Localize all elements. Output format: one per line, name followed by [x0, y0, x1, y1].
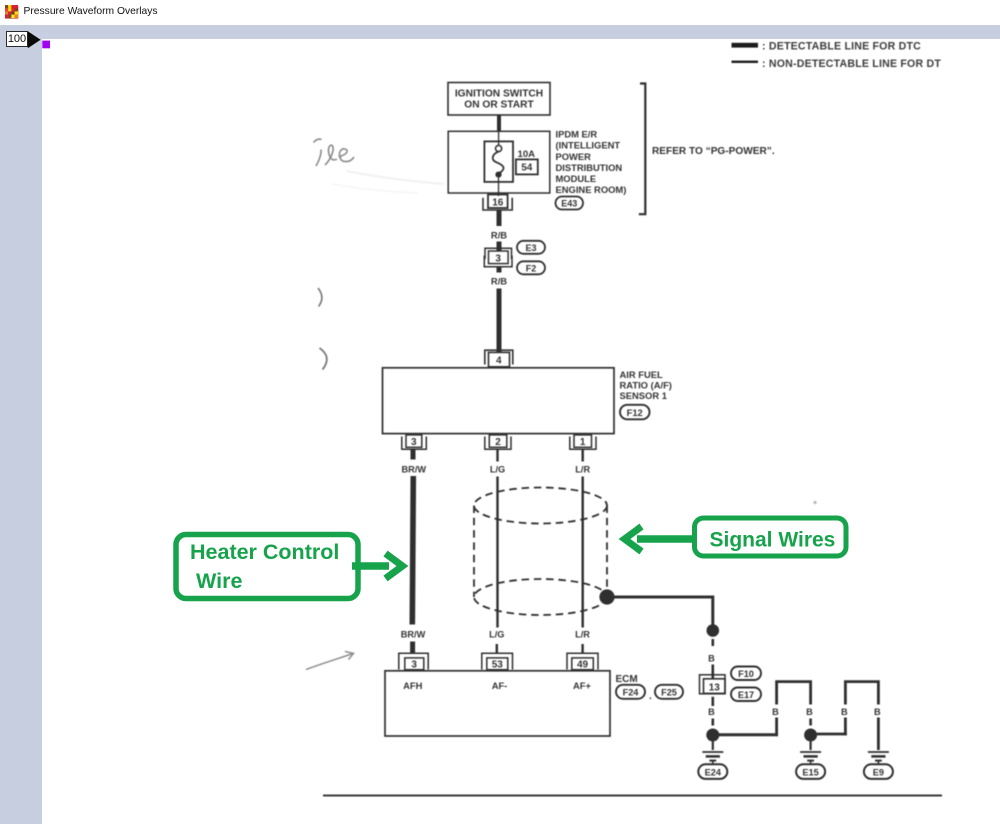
sensor pin 1 — [570, 435, 596, 449]
wire into fuse — [498, 132, 500, 146]
connector F2 — [517, 261, 545, 274]
A/F sensor box — [383, 368, 615, 434]
shield cylinder bottom ellipse — [474, 579, 607, 615]
dashed wire to node D — [809, 719, 812, 730]
fuse element — [493, 145, 504, 177]
sensor pin 3 — [402, 435, 427, 449]
legend detectable line symbol — [732, 40, 922, 52]
callout Signal Wires — [695, 518, 847, 556]
IPDM label block — [556, 129, 627, 196]
pin 4 connector — [485, 350, 513, 367]
svg-text:Signal Wires: Signal Wires — [710, 529, 836, 552]
connector E43 — [556, 197, 584, 210]
signal wire L/G — [496, 477, 498, 628]
wire below 13 — [711, 697, 714, 706]
svg-text:Heater Control: Heater Control — [190, 540, 339, 564]
callout Heater Control Wire — [176, 535, 358, 599]
wire stub L/R — [582, 450, 584, 462]
fuse number 54 box — [516, 159, 538, 174]
wire stub into ECM pin 53 — [496, 644, 498, 654]
shield cylinder top ellipse — [474, 488, 607, 524]
connector 13 (F10/E17) — [700, 675, 726, 694]
sensor pin 2 — [485, 435, 511, 449]
scan smudge — [347, 171, 444, 184]
wire stub into ECM pin 49 — [581, 644, 583, 654]
sensor label — [620, 369, 672, 401]
wire D to ground — [809, 742, 811, 751]
svg-text:Wire: Wire — [196, 569, 242, 593]
pi-link 2 left corner — [844, 718, 847, 736]
shield cylinder right side — [606, 506, 608, 598]
junction node C — [706, 729, 719, 742]
pi-link 1 left leg upper + top + right leg — [777, 682, 811, 705]
ECM pin 49 — [567, 653, 598, 670]
junction node B — [707, 624, 720, 637]
connector E9 — [864, 764, 893, 779]
page rule line — [323, 795, 942, 797]
connector E17 — [731, 688, 761, 702]
wire stub into ECM pin 3 — [410, 642, 415, 655]
handwriting pencil arrow — [306, 652, 354, 670]
wire below connector 3 — [497, 267, 502, 273]
wire D to pi2 — [817, 733, 847, 736]
arrow to signal wires — [625, 527, 695, 552]
dashed wire B — [711, 639, 714, 651]
wire R/B long — [497, 289, 502, 353]
signal wire L/R — [582, 477, 584, 628]
connector 3 (E3/F2) — [484, 248, 512, 267]
ground E24 — [702, 752, 723, 764]
wire 16 down — [497, 211, 502, 227]
connector F24 — [616, 685, 645, 699]
wire to connector 3 — [497, 242, 502, 252]
pin 16 connector — [483, 195, 512, 211]
shield cylinder left side — [473, 506, 475, 598]
wire ignition to IPDM — [497, 115, 501, 132]
ignition switch box — [448, 83, 550, 116]
wire stub BR/W — [411, 450, 416, 460]
dashed wire to node C — [711, 719, 714, 730]
junction node D — [804, 729, 817, 742]
ECM pin 3 — [399, 653, 428, 670]
window title icon — [0, 0, 26, 26]
play marker and overlay chip — [0, 0, 60, 60]
pi-link 2 upper — [845, 682, 878, 705]
connector F10 — [731, 667, 761, 681]
handwriting paren 2 — [320, 348, 327, 370]
ground E9 — [868, 752, 889, 764]
handwriting ite — [314, 139, 355, 166]
heater control wire BR/W thick — [412, 476, 413, 625]
connector E24 — [698, 764, 727, 779]
wire to ground E9 — [877, 718, 880, 751]
connector F25 — [655, 685, 683, 699]
wire C to pi1 — [719, 733, 778, 736]
wire shield to right — [613, 596, 713, 599]
legend non-detectable line symbol — [732, 58, 942, 70]
junction node A (shield drain) — [599, 589, 614, 604]
connector E15 — [796, 764, 825, 779]
fuse 10A box — [484, 141, 513, 182]
ECM pin 53 — [482, 653, 513, 670]
arrow to heater wire — [352, 554, 403, 579]
wire C to ground — [712, 742, 714, 751]
handwriting paren 1 — [318, 288, 322, 307]
wire fuse to pin 16 — [498, 178, 500, 196]
ground E15 — [800, 752, 821, 764]
IPDM E/R box U1 — [448, 131, 550, 193]
connector F12 — [620, 405, 650, 420]
bracket refer — [639, 84, 646, 215]
connector E3 — [517, 241, 545, 254]
pi-link 1 left leg lower — [775, 718, 778, 737]
ECM box — [385, 671, 610, 736]
scan speck — [813, 501, 816, 504]
wire down to node B — [711, 596, 714, 626]
wire stub L/G — [496, 450, 498, 462]
wire into connector 13 — [711, 665, 714, 679]
